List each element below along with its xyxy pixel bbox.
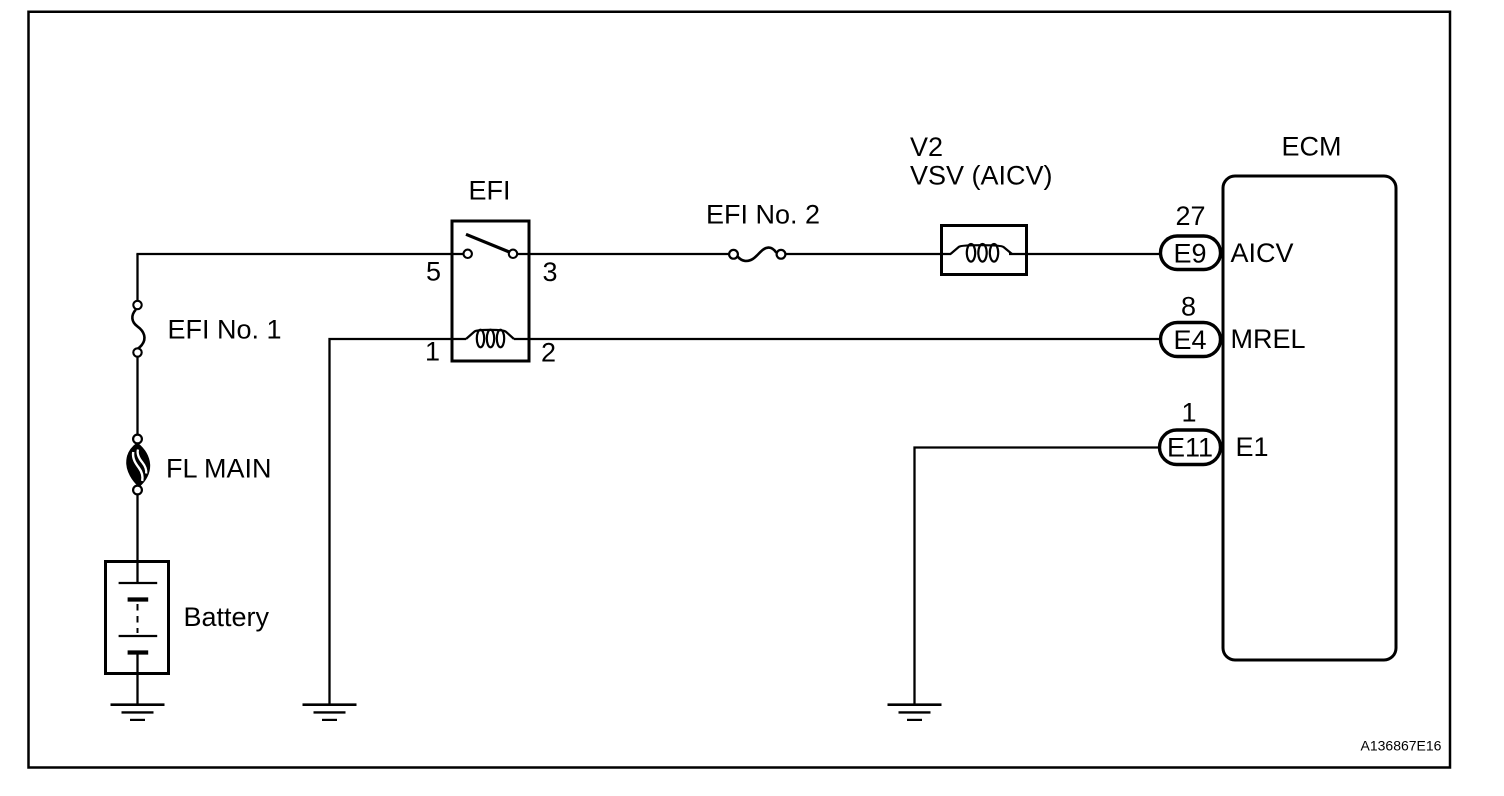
relay contact pin 5 xyxy=(464,250,472,258)
relay contact pin 3 xyxy=(509,250,517,258)
svg-text:E11: E11 xyxy=(1167,433,1213,463)
wire ECM E11 to ground xyxy=(915,448,1166,705)
svg-text:8: 8 xyxy=(1181,292,1196,322)
relay switch contact arm xyxy=(466,234,511,252)
ECM box xyxy=(1223,176,1396,660)
svg-text:1: 1 xyxy=(425,337,440,367)
connector E4 xyxy=(1161,323,1221,357)
svg-text:E4: E4 xyxy=(1173,325,1206,355)
svg-text:VSV (AICV): VSV (AICV) xyxy=(910,161,1053,191)
svg-text:V2: V2 xyxy=(910,132,943,162)
ground ECM E1 xyxy=(888,705,942,720)
fuse EFI No. 2 xyxy=(729,248,785,261)
wire relay pin2 to ECM E4 xyxy=(514,338,1165,340)
wire battery feed horizontal top xyxy=(138,254,465,255)
fusible link FL MAIN xyxy=(127,435,149,495)
wire VSV pin2 to ECM E9 xyxy=(1009,253,1165,255)
wire fuse EFI No.2 to VSV pin1 xyxy=(785,253,952,255)
VSV V2 box xyxy=(942,226,1027,275)
svg-text:EFI No. 1: EFI No. 1 xyxy=(168,315,282,345)
svg-text:2: 2 xyxy=(541,338,556,368)
battery xyxy=(106,562,169,674)
svg-text:EFI: EFI xyxy=(468,176,510,206)
connector E11 xyxy=(1160,430,1221,465)
wire relay pin3 to fuse EFI No.2 xyxy=(517,253,730,255)
ground battery xyxy=(111,705,165,720)
relay EFI box xyxy=(452,221,529,361)
relay coil xyxy=(466,330,514,348)
svg-text:3: 3 xyxy=(543,257,558,287)
connector E9 xyxy=(1161,236,1221,270)
svg-text:ECM: ECM xyxy=(1282,132,1342,162)
svg-text:MREL: MREL xyxy=(1231,324,1306,354)
VSV coil xyxy=(951,244,1013,262)
wire battery column vertical xyxy=(136,254,138,705)
fuse EFI No. 1 xyxy=(132,301,144,357)
svg-text:EFI No. 2: EFI No. 2 xyxy=(706,200,820,230)
svg-text:FL MAIN: FL MAIN xyxy=(166,454,272,484)
wire relay coil pin1 to ground xyxy=(330,339,467,705)
svg-text:AICV: AICV xyxy=(1231,238,1294,268)
svg-text:27: 27 xyxy=(1175,201,1205,231)
svg-text:1: 1 xyxy=(1181,398,1196,428)
svg-text:E9: E9 xyxy=(1173,239,1206,269)
svg-text:E1: E1 xyxy=(1236,432,1269,462)
svg-text:Battery: Battery xyxy=(184,602,270,632)
svg-text:A136867E16: A136867E16 xyxy=(1361,738,1442,754)
svg-text:5: 5 xyxy=(426,257,441,287)
ground relay coil xyxy=(303,705,357,720)
